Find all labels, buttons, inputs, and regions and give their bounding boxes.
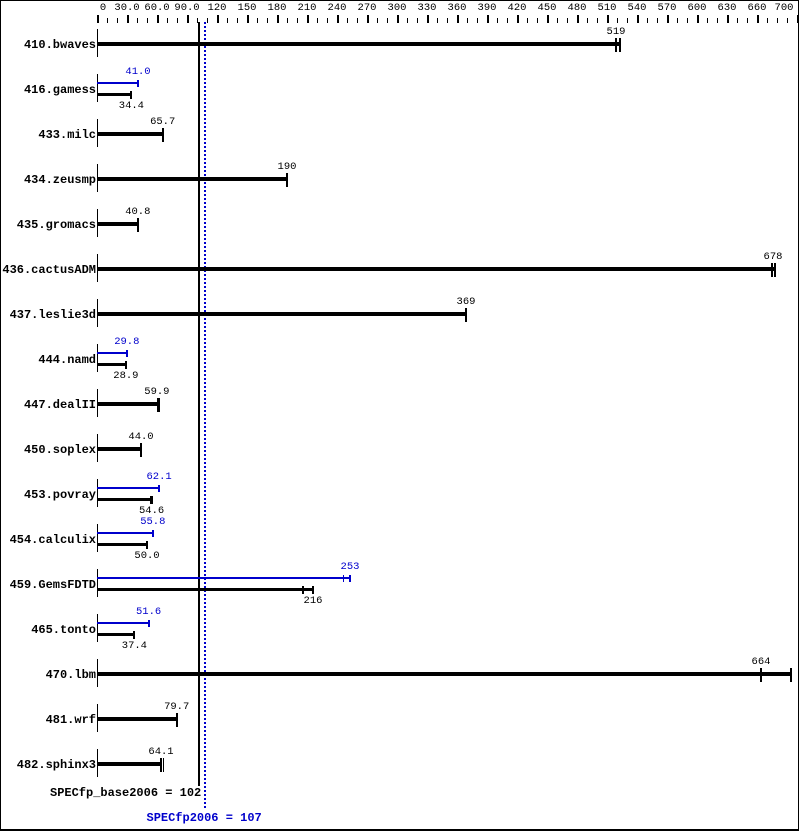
row 481.wrf [97,704,98,732]
SPECfp2006 mean line (107, dotted) [204,22,206,808]
row 450.soplex [97,434,98,462]
row 482.sphinx3 [97,749,98,777]
row 434.zeusmp [97,164,98,192]
SPECfp_base2006 mean line (102) [198,22,200,786]
row 447.dealII [97,389,98,417]
row 433.milc [97,119,98,147]
row 435.gromacs [97,209,98,237]
top axis ticks [97,15,99,23]
row 444.namd [97,344,98,372]
row 453.povray [97,479,98,507]
SPECfp_base2006 score text [50,787,201,800]
axis scale labels [100,2,106,14]
row 470.lbm [97,659,98,687]
row 459.GemsFDTD [97,569,98,597]
row 436.cactusADM [97,254,98,282]
row 465.tonto [97,614,98,642]
row 410.bwaves [97,29,98,57]
row 437.leslie3d [97,299,98,327]
row 416.gamess [97,74,98,102]
SPECfp2006 score text [147,812,262,825]
row 454.calculix [97,524,98,552]
